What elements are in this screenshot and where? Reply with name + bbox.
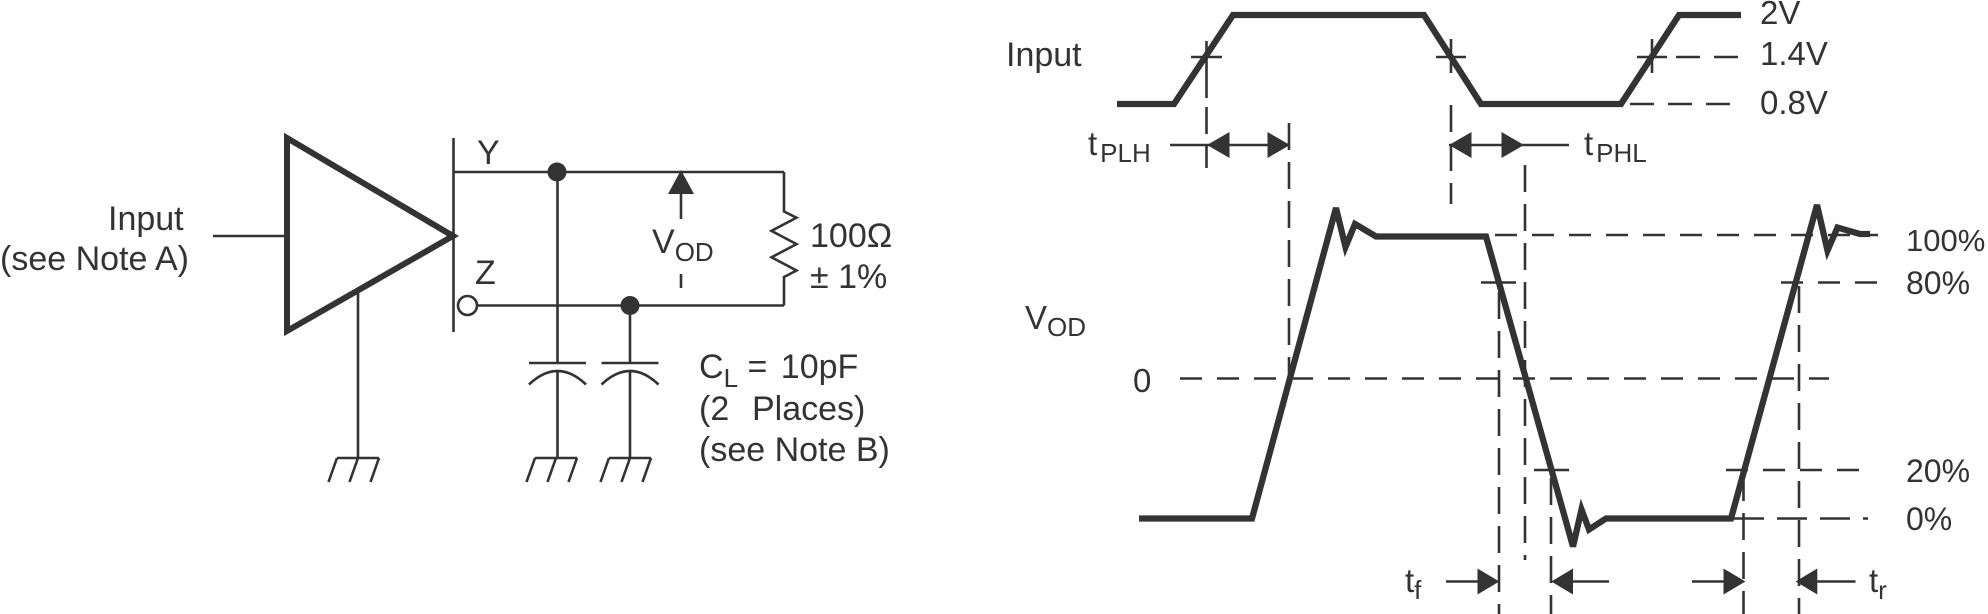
- svg-text:100Ω: 100Ω: [810, 217, 892, 255]
- dashed level 20%: [1726, 469, 1864, 472]
- node junction dot Z: [621, 296, 640, 315]
- dashed level 80%: [1781, 281, 1878, 284]
- label CL = 10pF: [699, 348, 890, 469]
- svg-text:CL = 10pF: CL = 10pF: [699, 348, 858, 393]
- dashed level 0.8V: [1630, 103, 1739, 106]
- svg-text:2V: 2V: [1760, 0, 1800, 31]
- dashed zero line: [1180, 377, 1829, 380]
- dashed vertical at VOD 80% rise crossing: [1798, 286, 1801, 614]
- svg-text:1.4V: 1.4V: [1760, 35, 1828, 72]
- svg-text:0.8V: 0.8V: [1760, 84, 1828, 121]
- tPHL dimension arrows: [1449, 144, 1569, 147]
- svg-text:(2: (2: [699, 390, 748, 428]
- svg-text:± 1%: ± 1%: [810, 258, 887, 296]
- ground under CL1: [527, 458, 578, 482]
- svg-text:0: 0: [1133, 362, 1151, 399]
- svg-text:tf: tf: [1405, 562, 1422, 605]
- label Input (see Note A): [0, 200, 189, 278]
- svg-text:tPLH: tPLH: [1088, 125, 1151, 168]
- tr dimension arrows: [1692, 580, 1724, 583]
- capacitor CL1: [529, 363, 586, 458]
- VOD waveform: [1139, 205, 1870, 547]
- wire Z output: [478, 304, 785, 307]
- dashed vertical at VOD 20% rise crossing: [1742, 474, 1745, 614]
- inverter bubble on Z output: [458, 296, 477, 315]
- dashed vertical at VOD 20% fall crossing: [1550, 478, 1553, 614]
- dashed level 1.4V: [1676, 56, 1739, 59]
- capacitor CL2 lead: [629, 306, 632, 364]
- svg-text:Input: Input: [108, 200, 184, 238]
- ground under driver: [329, 458, 380, 482]
- svg-text:(see Note A): (see Note A): [0, 240, 189, 278]
- tick 80% fall crossing: [1481, 281, 1516, 284]
- svg-text:Input: Input: [1006, 36, 1082, 74]
- dashed vertical at VOD rise zero crossing: [1288, 123, 1291, 378]
- driver U1 triangle buffer: [287, 138, 453, 331]
- svg-text:(see Note B): (see Note B): [699, 431, 890, 469]
- svg-text:0%: 0%: [1906, 501, 1952, 537]
- ground under CL2: [601, 458, 652, 482]
- svg-text:100%: 100%: [1906, 223, 1985, 258]
- tf dimension arrows: [1446, 580, 1478, 583]
- svg-text:Places): Places): [752, 390, 865, 428]
- node output bar: [452, 138, 455, 332]
- tick rise1 1.4V crossing: [1191, 41, 1222, 98]
- tick 20% fall crossing: [1534, 469, 1569, 472]
- svg-text:VOD: VOD: [652, 223, 714, 267]
- input waveform: [1117, 15, 1741, 104]
- svg-text:Z: Z: [475, 254, 496, 292]
- tPLH dimension arrows: [1170, 144, 1290, 147]
- dashed vertical at VOD fall zero crossing: [1524, 165, 1527, 560]
- svg-text:tPHL: tPHL: [1584, 125, 1647, 168]
- svg-text:VOD: VOD: [1025, 299, 1086, 342]
- tick rise2 1.4V crossing: [1637, 39, 1667, 73]
- svg-text:tr: tr: [1869, 562, 1887, 605]
- capacitor CL2: [602, 363, 659, 458]
- resistor R1 100 ohm: [772, 172, 797, 306]
- dashed vertical at input rise crossing: [1205, 107, 1208, 168]
- wire ground stub from driver: [357, 292, 360, 458]
- svg-text:Y: Y: [477, 134, 500, 172]
- wire input lead: [213, 235, 287, 238]
- dashed level 0%: [1734, 517, 1868, 520]
- dashed level 100%: [1495, 234, 1878, 237]
- svg-text:80%: 80%: [1906, 265, 1970, 301]
- capacitor CL1 lead: [556, 172, 559, 363]
- dashed vertical at input fall crossing: [1450, 105, 1453, 204]
- dashed vertical at VOD 80% fall crossing: [1498, 292, 1501, 614]
- wire Y output: [454, 171, 785, 174]
- VOD measurement arrow: [680, 194, 683, 219]
- tick fall 1.4V crossing: [1436, 39, 1466, 73]
- VOD dash: [680, 274, 683, 288]
- svg-text:20%: 20%: [1906, 453, 1970, 489]
- node junction dot Y: [548, 163, 567, 182]
- label 100 ohm 1%: [810, 217, 892, 296]
